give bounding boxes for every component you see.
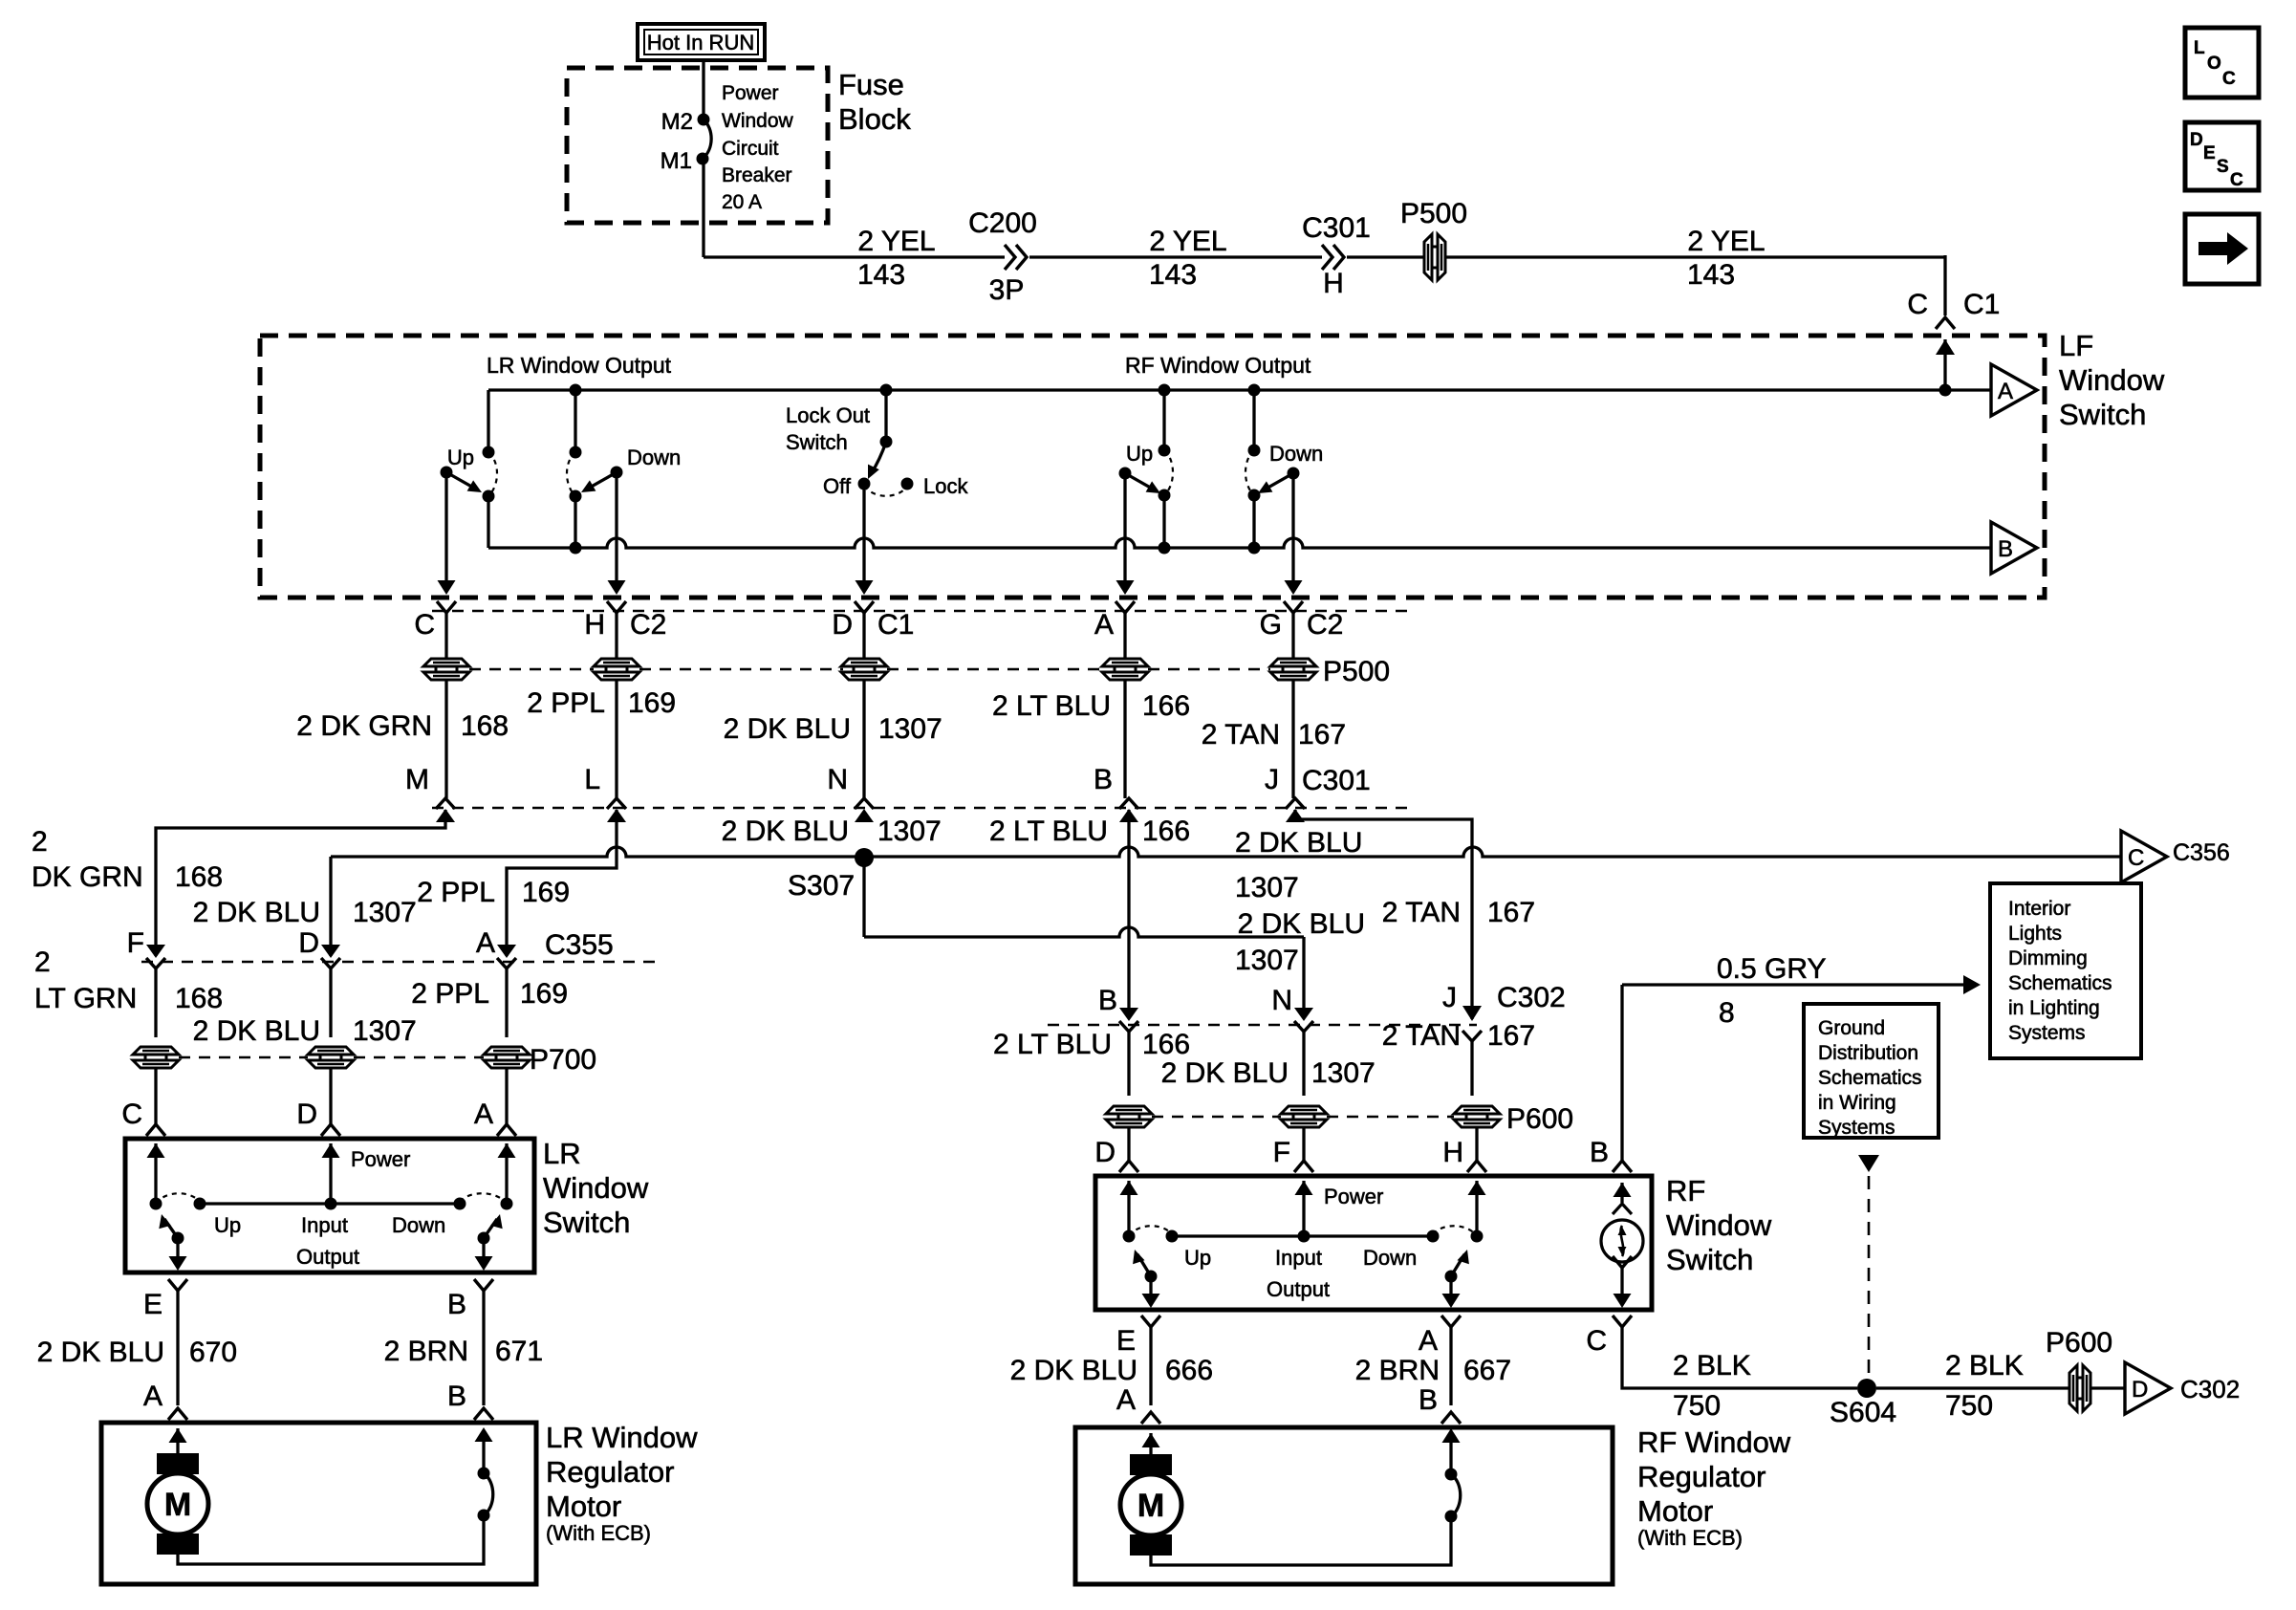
- svg-text:167: 167: [1298, 719, 1346, 751]
- svg-text:RF: RF: [1666, 1174, 1705, 1207]
- wire 2 BLK 750 (RF switch C to S604): [1622, 1327, 1857, 1388]
- connector C301 pin N: [855, 798, 874, 809]
- RF down switch lever: [1288, 468, 1300, 480]
- svg-text:2 BLK: 2 BLK: [1673, 1350, 1751, 1382]
- LF switch pin A: [1116, 601, 1135, 613]
- svg-text:Distribution: Distribution: [1818, 1042, 1918, 1064]
- svg-text:Output: Output: [1267, 1277, 1330, 1301]
- svg-text:2: 2: [34, 946, 51, 978]
- wire 2 BLK 750 (S604 to P600): [1876, 1386, 2069, 1389]
- wire: pin C entry (LR): [147, 1143, 165, 1158]
- wire: RF output E: [1149, 1276, 1152, 1304]
- pass-through grommet P500 (G wire): [1270, 659, 1316, 666]
- svg-text:H: H: [1442, 1137, 1463, 1168]
- wire: RF down pole to pin G: [1291, 473, 1294, 591]
- wire: S307 bus (2 DK BLU 1307): [331, 847, 2121, 857]
- ground distribution reference (dashed drop to S604): [1858, 1155, 1879, 1172]
- wire: ECB to pin B (LR): [482, 1431, 485, 1473]
- LR switch output lever (down side): [478, 1232, 490, 1245]
- wire: pin A entry (LR): [498, 1143, 516, 1158]
- node: LR down contact: [570, 490, 582, 503]
- node: RF down feed: [1248, 384, 1261, 397]
- svg-text:Switch: Switch: [2059, 398, 2146, 431]
- svg-text:P700: P700: [530, 1044, 596, 1076]
- svg-text:C: C: [2128, 845, 2144, 871]
- svg-text:2 DK GRN: 2 DK GRN: [296, 710, 432, 742]
- svg-text:1307: 1307: [1235, 872, 1299, 903]
- motor M (RF window regulator): [1130, 1454, 1172, 1475]
- svg-text:2 LT BLU: 2 LT BLU: [993, 1029, 1112, 1060]
- node: LR up feed: [487, 390, 489, 452]
- svg-text:Lock Out: Lock Out: [786, 403, 870, 427]
- svg-text:F: F: [127, 927, 144, 959]
- svg-text:Up: Up: [1184, 1246, 1211, 1270]
- connector C302 pin B: [1119, 1008, 1138, 1021]
- svg-text:D: D: [2132, 1377, 2148, 1403]
- wire: C1 entry into LF switch: [1936, 339, 1955, 355]
- pass-through grommet P600 (H wire): [1454, 1106, 1500, 1114]
- svg-text:Block: Block: [838, 102, 911, 136]
- svg-text:Lock: Lock: [923, 474, 968, 498]
- svg-text:Up: Up: [214, 1213, 241, 1237]
- RF window switch pin H: [1475, 1127, 1478, 1161]
- svg-text:S307: S307: [788, 870, 855, 902]
- svg-text:(With ECB): (With ECB): [546, 1521, 651, 1545]
- Interior Lights Dimming Schematics note box: [1990, 883, 2141, 1058]
- wire 2 DK BLU 1307 (C302 N to P600): [1302, 1032, 1305, 1096]
- svg-text:P600: P600: [2046, 1327, 2112, 1359]
- svg-text:Off: Off: [823, 474, 852, 498]
- RF switch output lever (down side): [1445, 1271, 1458, 1283]
- LR up switch lever: [441, 467, 453, 479]
- LF switch pin H: [607, 601, 626, 613]
- svg-text:C356: C356: [2173, 839, 2230, 866]
- pass-through P600 row dashes: [1152, 1116, 1281, 1118]
- svg-text:C2: C2: [630, 609, 666, 641]
- lockout throw (dashed alternate): [864, 486, 906, 496]
- svg-text:0.5 GRY: 0.5 GRY: [1717, 953, 1827, 985]
- svg-text:P500: P500: [1400, 198, 1467, 229]
- connector C301 pin B: [1119, 798, 1138, 809]
- svg-text:166: 166: [1142, 816, 1190, 847]
- svg-text:2 TAN: 2 TAN: [1202, 719, 1280, 751]
- svg-text:F: F: [1273, 1137, 1290, 1168]
- svg-text:143: 143: [1149, 259, 1197, 291]
- svg-text:750: 750: [1945, 1390, 1993, 1422]
- pass-through grommet P600 (D wire): [1106, 1106, 1152, 1114]
- svg-text:C: C: [121, 1099, 142, 1130]
- wire 2 DK BLU 1307 (pin D to N): [862, 680, 865, 798]
- svg-text:Breaker: Breaker: [722, 164, 792, 186]
- wire: LR output E: [176, 1238, 179, 1267]
- svg-text:1307: 1307: [353, 1015, 417, 1047]
- svg-text:2 LT BLU: 2 LT BLU: [989, 816, 1108, 847]
- lockout Off contact: [858, 478, 871, 490]
- svg-text:H: H: [584, 609, 605, 641]
- svg-text:B: B: [1590, 1137, 1609, 1168]
- svg-text:D: D: [298, 927, 319, 959]
- svg-text:167: 167: [1487, 1020, 1535, 1052]
- svg-text:Schematics: Schematics: [1818, 1067, 1922, 1089]
- svg-text:A: A: [1116, 1384, 1136, 1416]
- pass-through grommet P700 (A wire): [484, 1047, 530, 1055]
- svg-text:2 YEL: 2 YEL: [1149, 226, 1226, 257]
- pass-through grommet P600 (ground wire): [2069, 1365, 2077, 1411]
- svg-text:D: D: [296, 1099, 317, 1130]
- LF switch pin C: [437, 601, 456, 613]
- wire: LR output B: [482, 1238, 485, 1267]
- connector C200 pin 3P (inline): [1005, 245, 1027, 270]
- wire: motor A feed (LR): [169, 1428, 187, 1443]
- connector C302 pin N: [1294, 1008, 1313, 1021]
- svg-text:E: E: [143, 1289, 162, 1320]
- LR switch pin B (output): [474, 1279, 493, 1291]
- RF up switch throw (dashed alternate): [1164, 450, 1173, 495]
- icon forward arrow (top right): [2185, 214, 2259, 284]
- lockout switch lever: [871, 442, 886, 474]
- svg-text:B: B: [447, 1289, 466, 1320]
- svg-text:E: E: [2203, 143, 2216, 163]
- pass-through grommet P700 (D wire): [308, 1047, 354, 1055]
- svg-text:2 DK BLU: 2 DK BLU: [722, 816, 849, 847]
- svg-text:RF Window Output: RF Window Output: [1125, 353, 1311, 378]
- wire: LF switch bottom bus: [488, 538, 1991, 548]
- connector C302 boundary (dashed): [1048, 1024, 1477, 1026]
- svg-text:Down: Down: [1363, 1246, 1417, 1270]
- svg-text:L: L: [584, 764, 600, 795]
- svg-text:C: C: [2222, 69, 2236, 89]
- wire 2 DK BLU 1307 (C355 D to P700): [329, 967, 332, 1037]
- LF window switch (dashed component box): [260, 336, 2045, 598]
- node: RF up contact: [1159, 490, 1171, 502]
- wire: breaker output through fuse-block edge: [702, 159, 704, 257]
- svg-text:J: J: [1265, 764, 1279, 795]
- svg-text:A: A: [474, 1099, 493, 1130]
- wire: C301 B to C302 B: [1127, 810, 1130, 1009]
- RF switch down throw (dashed alternate): [1433, 1226, 1477, 1236]
- wire: S307 branch to C302 N (2 DK BLU 1307): [862, 858, 865, 937]
- svg-text:B: B: [1098, 985, 1117, 1016]
- LR switch down throw (dashed alternate): [460, 1193, 507, 1204]
- svg-text:2 BRN: 2 BRN: [384, 1336, 468, 1367]
- node: LR down feed: [570, 384, 582, 397]
- svg-text:1307: 1307: [353, 897, 417, 928]
- svg-text:C: C: [1586, 1325, 1607, 1357]
- power feed label box: Hot In RUN: [638, 24, 765, 60]
- wire: motor A feed (RF): [1142, 1433, 1160, 1447]
- svg-text:2 YEL: 2 YEL: [857, 226, 935, 257]
- svg-text:D: D: [832, 609, 853, 641]
- svg-text:168: 168: [461, 710, 509, 742]
- svg-text:P500: P500: [1323, 656, 1390, 687]
- svg-text:167: 167: [1487, 897, 1535, 928]
- LF switch pin G: [1284, 601, 1303, 613]
- wire: lockout pole to pin D: [862, 484, 865, 591]
- svg-text:2 DK BLU: 2 DK BLU: [1161, 1057, 1289, 1089]
- svg-text:H: H: [1323, 268, 1344, 299]
- wire: C301 J to C302 J (2 TAN): [1295, 810, 1472, 1013]
- off-page triangle A (to LF motor): [1991, 364, 2037, 416]
- wire 2 YEL 143 (C200 to C301): [1029, 255, 1322, 258]
- svg-text:Circuit: Circuit: [722, 138, 779, 160]
- connector C1 pin C (LF window switch feed): [1936, 317, 1955, 329]
- connector C301 pin H (inline): [1322, 245, 1344, 270]
- pass-through P700 row dashes: [179, 1056, 308, 1058]
- svg-text:N: N: [1271, 985, 1292, 1016]
- LR window switch pin C: [154, 1068, 157, 1124]
- svg-text:M1: M1: [661, 148, 692, 174]
- svg-text:2 PPL: 2 PPL: [527, 687, 605, 719]
- svg-text:A: A: [1094, 609, 1114, 641]
- svg-text:Regulator: Regulator: [1637, 1460, 1765, 1493]
- svg-text:Up: Up: [447, 446, 474, 469]
- svg-text:C2: C2: [1307, 609, 1343, 641]
- RF window switch pin F: [1302, 1127, 1305, 1161]
- svg-text:L: L: [2194, 38, 2205, 58]
- Ground Distribution Schematics note box: [1804, 1004, 1939, 1138]
- wire: C355 D drop from bus: [329, 857, 332, 956]
- svg-text:666: 666: [1165, 1355, 1213, 1386]
- LR window switch (component box): [125, 1139, 534, 1273]
- svg-text:2 LT BLU: 2 LT BLU: [992, 690, 1111, 722]
- pass-through grommet P500 (D wire): [841, 659, 887, 666]
- svg-text:C200: C200: [968, 207, 1037, 239]
- svg-text:C301: C301: [1302, 765, 1371, 796]
- svg-text:Input: Input: [1275, 1246, 1322, 1270]
- svg-text:B: B: [1419, 1384, 1438, 1416]
- node: LR up contact: [483, 490, 495, 503]
- svg-text:Switch: Switch: [543, 1206, 630, 1239]
- svg-text:1307: 1307: [878, 713, 942, 745]
- svg-text:166: 166: [1142, 1029, 1190, 1060]
- circuit breaker element (Power Window Circuit Breaker 20 A): [703, 120, 711, 159]
- svg-text:1307: 1307: [1235, 945, 1299, 976]
- connector C301 boundary (dashed): [432, 807, 1413, 809]
- wire 2 PPL 169 (C355 A to P700): [505, 967, 508, 1037]
- svg-text:S604: S604: [1830, 1397, 1896, 1428]
- svg-text:Ground: Ground: [1818, 1017, 1885, 1039]
- wire: P600 to C302 D: [2090, 1386, 2125, 1389]
- lockout Lock contact: [901, 478, 914, 490]
- svg-text:166: 166: [1142, 690, 1190, 722]
- svg-text:B: B: [1094, 764, 1113, 795]
- svg-text:2 BRN: 2 BRN: [1355, 1355, 1440, 1386]
- wire: LR up pole to pin C: [444, 472, 447, 591]
- off-page triangle C (to C356): [2121, 831, 2167, 882]
- svg-text:Input: Input: [301, 1213, 348, 1237]
- svg-text:LR: LR: [543, 1137, 581, 1170]
- circuit breaker M1 terminal: [697, 153, 709, 165]
- wire 2 TAN 167 (C302 J to P600): [1470, 1041, 1473, 1096]
- RF down switch throw (dashed alternate): [1245, 450, 1254, 495]
- svg-text:Down: Down: [627, 446, 681, 469]
- svg-text:143: 143: [1687, 259, 1735, 291]
- svg-text:A: A: [1998, 379, 2013, 404]
- wire 2 LT BLU 166 (pin A to B): [1123, 680, 1126, 798]
- svg-text:2 DK BLU: 2 DK BLU: [37, 1337, 164, 1368]
- LR down switch lever: [611, 467, 623, 479]
- RF switch common bar: [1172, 1234, 1433, 1237]
- icon DESC (top right): [2185, 122, 2259, 190]
- svg-text:1307: 1307: [1311, 1057, 1375, 1089]
- wire 2 TAN 167 (pin G to J): [1291, 680, 1294, 798]
- svg-text:C1: C1: [877, 609, 914, 641]
- svg-text:671: 671: [495, 1336, 543, 1367]
- RF window switch pin B (top): [1620, 985, 1623, 1161]
- svg-text:B: B: [447, 1381, 466, 1412]
- svg-text:LT GRN: LT GRN: [34, 983, 137, 1014]
- splice S604: [1857, 1379, 1876, 1398]
- svg-text:Fuse: Fuse: [838, 68, 904, 101]
- wire: RF output A: [1449, 1276, 1452, 1304]
- svg-text:168: 168: [175, 983, 223, 1014]
- svg-text:Down: Down: [392, 1213, 445, 1237]
- svg-text:2 DK BLU: 2 DK BLU: [1235, 827, 1362, 859]
- svg-text:D: D: [1094, 1137, 1116, 1168]
- svg-text:Hot In RUN: Hot In RUN: [647, 31, 754, 54]
- svg-text:Power: Power: [351, 1147, 410, 1171]
- connector C355 boundary (dashed): [141, 961, 660, 963]
- svg-text:G: G: [1260, 609, 1282, 641]
- svg-text:2 YEL: 2 YEL: [1687, 226, 1765, 257]
- svg-text:S: S: [2217, 157, 2229, 177]
- ECB thermal breaker (LR): [478, 1510, 490, 1522]
- pass-through grommet P500 (A wire): [1102, 659, 1148, 666]
- RF switch pin E: [1141, 1316, 1160, 1327]
- LR window switch pin D: [329, 1068, 332, 1124]
- svg-text:2 DK BLU: 2 DK BLU: [1010, 1355, 1137, 1386]
- wire 2 DK GRN 168 (pin C to M): [444, 680, 447, 798]
- svg-text:1307: 1307: [877, 816, 942, 847]
- svg-text:D: D: [2190, 130, 2203, 150]
- node: RF down contact: [1248, 490, 1261, 502]
- svg-text:N: N: [827, 764, 848, 795]
- circuit breaker M2 terminal: [698, 114, 710, 126]
- LR window switch pin A: [505, 1068, 508, 1124]
- LR switch output lever (up side): [172, 1232, 184, 1245]
- svg-text:LF: LF: [2059, 329, 2093, 362]
- svg-text:E: E: [1116, 1325, 1136, 1357]
- wire 2 YEL 143 (P500 to LF window switch): [1445, 255, 1945, 258]
- RF window regulator motor (component box): [1075, 1427, 1613, 1584]
- pass-through grommet P500 (top): [1347, 255, 1424, 258]
- svg-text:M: M: [164, 1487, 191, 1523]
- wire: pin F Power entry (RF): [1295, 1181, 1313, 1195]
- wire 2 LT BLU 166 (C302 B to P600): [1127, 1032, 1130, 1096]
- pass-through grommet P600 (F wire): [1281, 1106, 1327, 1114]
- LR switch up throw (dashed alternate): [156, 1193, 200, 1204]
- svg-text:Systems: Systems: [1818, 1117, 1895, 1139]
- svg-text:C1: C1: [1963, 289, 2000, 320]
- svg-text:168: 168: [175, 861, 223, 893]
- svg-text:Window: Window: [1666, 1208, 1772, 1242]
- svg-text:LR Window Output: LR Window Output: [487, 353, 672, 378]
- RF window switch pin D: [1127, 1127, 1130, 1161]
- RF window switch (component box): [1095, 1176, 1652, 1310]
- svg-text:8: 8: [1719, 997, 1735, 1029]
- wire 0.5 GRY 8 (RF switch B to interior lights dimming): [1622, 983, 1971, 986]
- connector C355 pin A: [497, 945, 516, 958]
- icon LOC (top right): [2185, 28, 2259, 98]
- svg-text:Lights: Lights: [2008, 923, 2062, 945]
- svg-text:in Lighting: in Lighting: [2008, 997, 2100, 1019]
- svg-text:2 PPL: 2 PPL: [417, 877, 495, 908]
- RF switch pin C (ground): [1613, 1316, 1632, 1327]
- wire: RF motor to ECB: [1151, 1516, 1451, 1565]
- connector C355 pin D: [321, 945, 340, 958]
- svg-text:Regulator: Regulator: [546, 1455, 674, 1489]
- svg-text:670: 670: [189, 1337, 237, 1368]
- svg-text:2 TAN: 2 TAN: [1382, 1020, 1461, 1052]
- svg-text:667: 667: [1463, 1355, 1511, 1386]
- svg-text:Switch: Switch: [786, 430, 848, 454]
- RF switch output lever (up side): [1145, 1271, 1158, 1283]
- svg-text:J: J: [1442, 982, 1457, 1013]
- svg-text:(With ECB): (With ECB): [1637, 1526, 1743, 1550]
- LF switch pin D: [855, 601, 874, 613]
- svg-text:M: M: [1137, 1488, 1164, 1524]
- svg-text:C355: C355: [545, 929, 614, 961]
- svg-text:Power: Power: [722, 82, 779, 104]
- ECB thermal breaker (RF): [1445, 1511, 1458, 1523]
- svg-text:C302: C302: [1497, 982, 1566, 1013]
- svg-text:A: A: [476, 927, 495, 959]
- pass-through P500 row dashes: [469, 668, 594, 670]
- svg-text:P600: P600: [1506, 1103, 1573, 1135]
- svg-text:3P: 3P: [989, 274, 1025, 306]
- svg-text:C: C: [414, 609, 435, 641]
- svg-text:B: B: [1998, 536, 2013, 562]
- svg-text:2 PPL: 2 PPL: [411, 978, 489, 1010]
- svg-text:Power: Power: [1324, 1185, 1383, 1208]
- svg-text:169: 169: [628, 687, 676, 719]
- svg-text:Motor: Motor: [546, 1490, 621, 1523]
- off-page triangle D (C302): [2125, 1362, 2171, 1414]
- LR window regulator motor (component box): [101, 1423, 536, 1584]
- LR switch common bar: [200, 1202, 460, 1205]
- svg-text:2 DK BLU: 2 DK BLU: [193, 1015, 320, 1047]
- svg-text:Output: Output: [296, 1245, 359, 1269]
- svg-text:LR Window: LR Window: [546, 1421, 698, 1454]
- svg-text:Switch: Switch: [1666, 1243, 1753, 1276]
- svg-text:O: O: [2207, 54, 2221, 74]
- svg-text:20 A: 20 A: [722, 191, 762, 213]
- wire 2 LT GRN 168 (C355 F to P700): [154, 967, 157, 1037]
- svg-text:M2: M2: [661, 109, 693, 135]
- svg-text:Schematics: Schematics: [2008, 972, 2112, 994]
- wire: C301 M to C355 F (2 DK GRN): [156, 810, 445, 956]
- wire: pin H entry (RF): [1468, 1181, 1486, 1195]
- RF switch up throw (dashed alternate): [1129, 1226, 1172, 1236]
- svg-text:Down: Down: [1269, 442, 1323, 466]
- svg-text:2 DK BLU: 2 DK BLU: [193, 897, 320, 928]
- LR switch pin E: [168, 1279, 187, 1291]
- svg-text:Window: Window: [2059, 363, 2165, 397]
- wire: ECB to pin B (RF): [1449, 1432, 1452, 1474]
- connector C301 pin J: [1286, 798, 1305, 809]
- pass-through grommet P500 (H wire): [594, 659, 639, 666]
- node: RF up feed: [1159, 384, 1171, 397]
- svg-text:Systems: Systems: [2008, 1022, 2086, 1044]
- wire: pin D Power entry (LR): [322, 1143, 340, 1158]
- svg-text:Motor: Motor: [1637, 1494, 1713, 1528]
- svg-text:C: C: [1907, 289, 1928, 320]
- connector C301 pin M: [436, 798, 455, 809]
- wire: Hot In RUN feed into fuse block: [702, 59, 704, 120]
- node: top bus junction at C1 drop: [1939, 384, 1952, 397]
- svg-text:A: A: [143, 1381, 162, 1412]
- svg-text:Window: Window: [543, 1171, 649, 1205]
